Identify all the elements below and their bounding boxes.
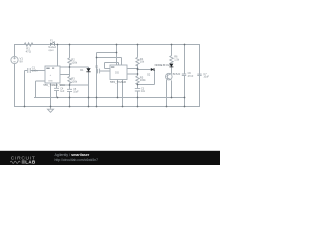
svg-text:C2: C2: [95, 65, 99, 68]
svg-text:10uF: 10uF: [203, 76, 209, 79]
svg-text:100k: 100k: [71, 79, 77, 83]
svg-text:F1: F1: [50, 39, 54, 42]
capacitor C1: [28, 68, 30, 73]
wire right edge: [199, 45, 201, 108]
resistor R3: [68, 76, 71, 83]
wire C1 node: [25, 71, 46, 108]
wire D1 loop: [60, 67, 89, 107]
svg-text:100n: 100n: [32, 68, 38, 72]
svg-text:open: open: [48, 49, 54, 52]
wire CV node x96: [97, 58, 111, 108]
resistor R2: [68, 58, 71, 66]
wire top rail: [14, 44, 200, 46]
svg-text:1.5k: 1.5k: [174, 58, 180, 62]
svg-text:Agilently / smartlaser: Agilently / smartlaser: [55, 153, 90, 157]
wire IC2 right pin stubs: [127, 69, 138, 75]
wire laser branch x171.5: [171, 45, 173, 74]
resistor R6: [170, 55, 173, 64]
LED LED1: [170, 64, 174, 67]
op-amp U2 555 timer box: [110, 65, 127, 80]
wire C5 branch: [69, 91, 71, 107]
wire bottom rail: [14, 106, 200, 108]
ground: [48, 107, 54, 112]
svg-text:9V: 9V: [20, 59, 24, 63]
svg-text:10n: 10n: [141, 90, 146, 93]
diode D1: [86, 68, 90, 71]
switch S1: [50, 41, 55, 47]
svg-text:555_TIMER: 555_TIMER: [110, 80, 127, 84]
wire V1 bottom lead: [14, 64, 16, 107]
wire plain branch x184: [184, 45, 186, 108]
wire divider branch x137: [137, 45, 139, 108]
svg-text:BF520: BF520: [173, 72, 181, 76]
resistor R4: [136, 57, 139, 67]
capacitor C3: [135, 89, 140, 91]
svg-text:LAB: LAB: [25, 160, 35, 165]
svg-text:100k: 100k: [140, 78, 146, 82]
wire right cap branch: [199, 45, 201, 108]
wire D2 loop: [138, 70, 155, 85]
node junction dots: [24, 44, 186, 108]
svg-text:47Ω: 47Ω: [26, 49, 31, 53]
svg-text:10uF: 10uF: [73, 91, 79, 94]
capacitor C4: [54, 88, 59, 90]
wire IC1 gnd pin: [50, 83, 52, 107]
capacitor C7: [197, 74, 201, 76]
svg-text:GND: GND: [48, 80, 53, 82]
svg-text:1uF: 1uF: [60, 90, 65, 93]
svg-text:http://circuitlab.com/c6wk5n7: http://circuitlab.com/c6wk5n7: [55, 158, 99, 162]
svg-text:47nF: 47nF: [188, 75, 194, 78]
wire IC1 dis pin: [56, 83, 58, 98]
capacitor C5: [67, 89, 72, 91]
wire Q1 left drop: [166, 80, 168, 107]
footer bar: [0, 151, 220, 165]
wire IC1 trig loop: [36, 81, 46, 98]
svg-text:555: 555: [115, 71, 120, 74]
wire IC2 VCC drop: [116, 45, 118, 66]
svg-text:D2: D2: [147, 73, 151, 76]
capacitor C6: [182, 74, 186, 75]
resistor R5: [136, 75, 139, 85]
wire divider branch x69: [69, 45, 71, 99]
wire V1 top lead: [14, 45, 16, 57]
svg-text:10k: 10k: [140, 60, 145, 64]
wire loop over IC2: [97, 53, 122, 69]
svg-text:D1: D1: [80, 68, 84, 72]
wire IC1 out stub: [60, 74, 70, 76]
svg-text:+: +: [50, 74, 52, 77]
transistor Q1: [166, 73, 173, 80]
capacitor C2: [98, 69, 100, 74]
wire IC2 bottom pins: [118, 80, 123, 108]
wire IC1 VCC drop: [57, 45, 59, 67]
diode D2: [151, 68, 154, 71]
svg-text:100k: 100k: [71, 61, 77, 65]
op-amp U1 555 timer box: [45, 66, 60, 83]
wire Q1 emitter drop: [171, 81, 173, 99]
wire middle ground rail: [34, 97, 185, 99]
resistor R1: [23, 43, 34, 46]
voltage source V1: [11, 56, 18, 63]
